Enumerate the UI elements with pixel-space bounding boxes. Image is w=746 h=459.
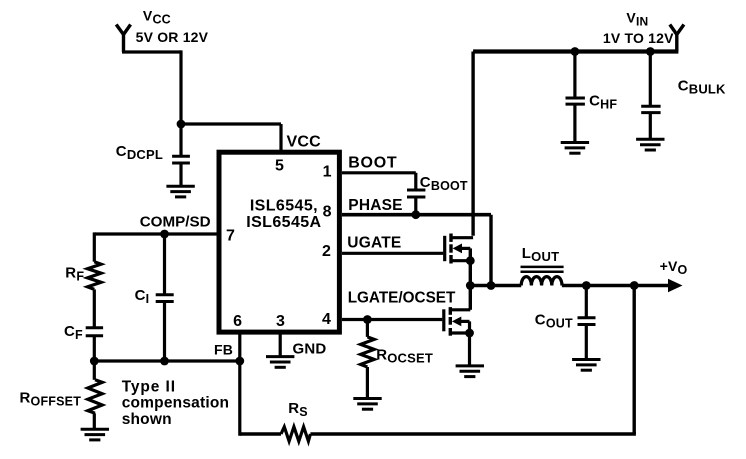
op-amp U1 ISL6545 body bbox=[219, 152, 339, 332]
pin 5 number bbox=[275, 158, 284, 175]
ground ROFFSET bbox=[81, 429, 109, 440]
label UGATE bbox=[347, 235, 401, 252]
ground CBULK bbox=[636, 139, 664, 150]
svg-text:7: 7 bbox=[226, 227, 235, 244]
svg-text:ROCSET: ROCSET bbox=[376, 346, 433, 365]
label GND bbox=[293, 341, 327, 358]
node feedback junction bbox=[630, 281, 639, 290]
svg-text:3: 3 bbox=[276, 313, 285, 330]
node VCC junction bbox=[177, 120, 186, 129]
svg-text:FB: FB bbox=[214, 342, 233, 358]
label RS bbox=[288, 400, 308, 419]
wire VIN bus bbox=[473, 49, 678, 53]
node Q1 source bbox=[466, 256, 475, 265]
label ROFFSET bbox=[20, 389, 82, 408]
wire LOUT to output bbox=[562, 284, 670, 287]
capacitor CDCPL bbox=[172, 124, 190, 186]
wire Q2 source to ground bbox=[468, 333, 471, 366]
capacitor CBOOT bbox=[407, 190, 425, 215]
svg-text:1V TO 12V: 1V TO 12V bbox=[603, 30, 674, 46]
capacitor CF bbox=[86, 328, 103, 361]
wire RS to FB bbox=[240, 432, 281, 435]
label FB bbox=[214, 342, 233, 358]
capacitor CI bbox=[156, 234, 174, 361]
wire Q1 body-source vertical bbox=[469, 248, 472, 309]
label VIN bbox=[626, 9, 648, 28]
wire BOOT pin 1 bbox=[342, 173, 416, 190]
label PHASE bbox=[348, 197, 402, 214]
svg-text:COMP/SD: COMP/SD bbox=[140, 214, 211, 231]
node ROCSET tap bbox=[363, 315, 372, 324]
label LGATE/OCSET bbox=[348, 290, 456, 307]
wire LGATE pin 4 bbox=[342, 318, 442, 321]
node FB junction bbox=[235, 357, 244, 366]
svg-text:GND: GND bbox=[293, 341, 327, 358]
svg-text:+VO: +VO bbox=[660, 258, 688, 277]
wire UGATE pin 2 bbox=[342, 252, 443, 255]
label COUT bbox=[535, 312, 573, 331]
svg-text:VIN: VIN bbox=[626, 9, 648, 28]
ground Q2 source bbox=[456, 366, 484, 377]
svg-text:PHASE: PHASE bbox=[348, 197, 402, 214]
svg-text:CI: CI bbox=[135, 287, 150, 306]
pin 2 number bbox=[322, 243, 331, 260]
capacitor COUT bbox=[578, 286, 596, 360]
resistor RS bbox=[281, 427, 310, 441]
pin 4 number bbox=[322, 311, 331, 328]
label ISL6545 bbox=[250, 198, 318, 215]
wire VCC terminal to junction bbox=[122, 50, 181, 125]
wire FB line bbox=[94, 359, 240, 362]
svg-text:VCC: VCC bbox=[143, 7, 171, 26]
svg-text:2: 2 bbox=[322, 243, 331, 260]
VIN input terminal bbox=[670, 25, 684, 52]
ground CHF bbox=[561, 143, 589, 154]
pin 3 number bbox=[276, 313, 285, 330]
label BOOT bbox=[348, 155, 397, 172]
svg-text:CF: CF bbox=[64, 323, 83, 342]
transistor Q1 upper MOSFET bbox=[445, 234, 473, 264]
inductor LOUT core bbox=[521, 267, 564, 272]
svg-text:compensation: compensation bbox=[122, 395, 229, 412]
note Type II compensation bbox=[122, 378, 229, 428]
VCC input terminal bbox=[116, 25, 130, 53]
svg-text:4: 4 bbox=[322, 311, 331, 328]
capacitor CHF bbox=[566, 52, 585, 143]
wire COMP/SD bbox=[94, 232, 217, 235]
resistor ROFFSET bbox=[88, 361, 102, 429]
node PHASE at output leg bbox=[487, 281, 496, 290]
svg-text:ISL6545,: ISL6545, bbox=[250, 198, 318, 215]
wire VCC junction to pin 5 bbox=[181, 124, 281, 153]
capacitor CBULK bbox=[641, 52, 660, 140]
svg-text:1: 1 bbox=[323, 164, 332, 181]
label ISL6545A bbox=[246, 214, 321, 231]
label COMP/SD bbox=[140, 214, 211, 231]
svg-text:VCC: VCC bbox=[287, 134, 322, 151]
label RF bbox=[65, 264, 84, 283]
label CBOOT bbox=[420, 174, 468, 193]
svg-text:5V OR 12V: 5V OR 12V bbox=[136, 29, 209, 45]
svg-text:8: 8 bbox=[323, 203, 332, 220]
svg-text:5: 5 bbox=[275, 158, 284, 175]
node Q2 source bbox=[465, 329, 474, 338]
svg-text:RS: RS bbox=[288, 400, 308, 419]
node COUT junction bbox=[582, 281, 591, 290]
svg-text:CDCPL: CDCPL bbox=[116, 143, 163, 162]
pin 6 number bbox=[233, 313, 242, 330]
wire GND pin 3 bbox=[279, 332, 282, 357]
wire Q1 drain to VIN bbox=[471, 52, 474, 236]
label VCC supply bbox=[143, 7, 171, 26]
svg-text:RF: RF bbox=[65, 264, 84, 283]
pin 8 number bbox=[323, 203, 332, 220]
svg-text:UGATE: UGATE bbox=[347, 235, 401, 252]
label CI bbox=[135, 287, 150, 306]
svg-text:CHF: CHF bbox=[589, 92, 617, 111]
wire PHASE pin 8 bbox=[342, 215, 491, 286]
ground IC GND bbox=[266, 357, 294, 368]
pin 1 number bbox=[323, 164, 332, 181]
label 1V TO 12V bbox=[603, 30, 674, 46]
svg-text:Type II: Type II bbox=[122, 378, 176, 395]
svg-text:BOOT: BOOT bbox=[348, 155, 397, 172]
resistor ROCSET bbox=[361, 320, 375, 399]
node VIN-CBULK junction bbox=[646, 47, 655, 56]
output arrow +VO bbox=[668, 279, 683, 292]
label VCC pin bbox=[287, 134, 322, 151]
wire phase node bus bbox=[470, 284, 521, 287]
resistor RF bbox=[88, 232, 102, 327]
node VIN-CHF junction bbox=[571, 47, 580, 56]
label +VO bbox=[660, 258, 688, 277]
svg-text:CBULK: CBULK bbox=[678, 77, 726, 96]
wire output to RS bbox=[310, 286, 636, 435]
label CBULK bbox=[678, 77, 726, 96]
ground COUT bbox=[572, 360, 600, 371]
node CBOOT-PHASE junction bbox=[411, 210, 420, 219]
svg-text:ISL6545A: ISL6545A bbox=[246, 214, 321, 231]
node phase output junction bbox=[466, 281, 475, 290]
svg-text:6: 6 bbox=[233, 313, 242, 330]
svg-text:shown: shown bbox=[122, 411, 172, 428]
node comp left junction bbox=[90, 357, 99, 366]
svg-text:CBOOT: CBOOT bbox=[420, 174, 468, 193]
node CI bottom junction bbox=[160, 357, 169, 366]
pin 7 number bbox=[226, 227, 235, 244]
ground CDCPL bbox=[166, 186, 194, 197]
ground ROCSET bbox=[353, 399, 381, 410]
svg-text:ROFFSET: ROFFSET bbox=[20, 389, 82, 408]
label LOUT bbox=[522, 245, 559, 264]
transistor Q2 lower MOSFET bbox=[444, 307, 471, 336]
label ROCSET bbox=[376, 346, 433, 365]
svg-text:LOUT: LOUT bbox=[522, 245, 559, 264]
label CF bbox=[64, 323, 83, 342]
node CI top junction bbox=[160, 230, 169, 239]
label 5V OR 12V bbox=[136, 29, 209, 45]
wire FB pin 6 bbox=[238, 332, 241, 436]
svg-text:LGATE/OCSET: LGATE/OCSET bbox=[348, 290, 456, 307]
label CHF bbox=[589, 92, 617, 111]
inductor LOUT coil bbox=[521, 277, 562, 286]
svg-text:COUT: COUT bbox=[535, 312, 573, 331]
label CDCPL bbox=[116, 143, 163, 162]
